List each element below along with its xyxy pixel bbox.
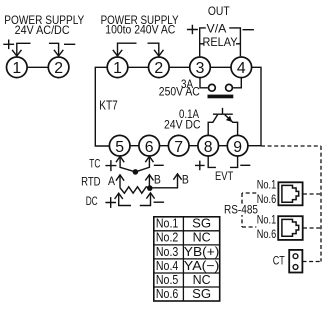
svg-text:YB(+): YB(+) bbox=[184, 244, 220, 259]
wire relay left leg to terminal 3 bbox=[200, 43, 205, 45]
terminal 4 bbox=[231, 57, 252, 78]
transistor Q1 emitter arrowhead bbox=[226, 116, 232, 122]
thermocouple junction dot bbox=[133, 169, 139, 175]
svg-text:B: B bbox=[154, 172, 161, 186]
wire terminal4 to relay contact bbox=[233, 78, 241, 88]
svg-text:250V AC: 250V AC bbox=[159, 84, 200, 98]
wire 7-8 bbox=[189, 145, 198, 147]
dashed wire jack2 bbox=[303, 227, 321, 229]
thermocouple wire + into terminal 5 bbox=[120, 157, 135, 172]
svg-text:KT7: KT7 bbox=[99, 99, 118, 113]
connector CT box bbox=[289, 250, 302, 273]
table column divider bbox=[182, 217, 184, 301]
RTD wire B into terminal 7 bbox=[153, 174, 178, 187]
plus sign TC bbox=[105, 160, 116, 171]
svg-text:NC: NC bbox=[193, 230, 211, 245]
svg-text:2: 2 bbox=[154, 60, 163, 77]
svg-text:100to 240V AC: 100to 240V AC bbox=[105, 23, 175, 37]
svg-text:1: 1 bbox=[12, 60, 21, 77]
svg-text:No.3: No.3 bbox=[156, 244, 178, 259]
terminal 7 bbox=[168, 135, 189, 156]
terminal 1 bbox=[6, 57, 27, 78]
svg-text:A: A bbox=[108, 174, 115, 188]
wire V/A right bbox=[229, 28, 240, 56]
svg-text:24V AC/DC: 24V AC/DC bbox=[15, 23, 70, 37]
wire 1b-2b bbox=[128, 66, 149, 68]
plus sign DC bbox=[105, 197, 116, 208]
svg-text:No.1: No.1 bbox=[257, 212, 277, 226]
svg-text:5: 5 bbox=[115, 139, 124, 156]
CT pin hole 1 bbox=[293, 254, 298, 259]
wire terminal9 right bbox=[248, 145, 261, 147]
svg-text:9: 9 bbox=[233, 139, 242, 156]
wire arrow into terminal 2b bbox=[148, 43, 159, 55]
svg-text:No.4: No.4 bbox=[156, 258, 178, 273]
wire arrow into terminal 1 bbox=[17, 43, 31, 55]
svg-text:RTD: RTD bbox=[81, 174, 101, 188]
svg-text:RS-485: RS-485 bbox=[224, 203, 258, 217]
connector jack1 box bbox=[278, 182, 302, 205]
wire arrow into terminal 2 bbox=[49, 43, 59, 55]
transistor Q1 emitter leg to terminal 9 bbox=[225, 115, 238, 136]
RTD wire A into terminal 5 bbox=[119, 175, 121, 187]
terminal 8 bbox=[198, 135, 219, 156]
wire terminal3 to relay contact bbox=[200, 78, 208, 88]
wire terminal4 to node right bbox=[252, 67, 261, 146]
svg-text:No.2: No.2 bbox=[156, 230, 178, 245]
svg-text:8: 8 bbox=[204, 139, 213, 156]
svg-text:No.6: No.6 bbox=[156, 286, 178, 301]
wire 6-7 bbox=[160, 145, 169, 147]
DC wire - into terminal 6 bbox=[140, 193, 151, 205]
svg-text:No.5: No.5 bbox=[156, 272, 178, 287]
dashed RS-485 bracket bottom bbox=[242, 226, 256, 228]
terminal 2b bbox=[149, 57, 170, 78]
resistor RTD element bbox=[120, 187, 150, 193]
plus sign supply1 bbox=[3, 40, 14, 50]
svg-text:V/A: V/A bbox=[207, 21, 227, 35]
terminal assignment table bbox=[154, 217, 220, 301]
svg-text:24V DC: 24V DC bbox=[164, 117, 201, 131]
terminal 1b bbox=[107, 57, 128, 78]
svg-text:YA(−): YA(−) bbox=[184, 258, 220, 273]
plus sign EVT bbox=[195, 161, 205, 171]
relay armature bar bbox=[208, 95, 234, 99]
svg-text:No.1: No.1 bbox=[156, 216, 178, 231]
terminal 3 bbox=[190, 57, 211, 78]
svg-text:CT: CT bbox=[273, 253, 285, 267]
svg-text:No.6: No.6 bbox=[257, 192, 277, 206]
minus sign DC bbox=[154, 201, 165, 203]
dashed wire CT bbox=[303, 261, 322, 263]
plus sign OUT bbox=[187, 25, 198, 35]
svg-text:6: 6 bbox=[145, 139, 154, 156]
connector jack1 socket bbox=[282, 185, 299, 202]
svg-text:SG: SG bbox=[192, 216, 211, 231]
svg-text:TC: TC bbox=[89, 156, 100, 170]
wire 8-9 bbox=[219, 145, 228, 147]
transistor Q1 base lead bbox=[222, 108, 224, 114]
transistor Q1 base bar bbox=[213, 113, 233, 115]
svg-text:B: B bbox=[182, 172, 189, 186]
minus sign OUT bbox=[243, 29, 254, 31]
minus sign TC bbox=[154, 164, 164, 166]
terminal 6 bbox=[139, 135, 160, 156]
svg-text:RELAY: RELAY bbox=[203, 35, 238, 49]
wire relay right leg to terminal 4 bbox=[236, 43, 240, 45]
unit outline KT7 bbox=[95, 67, 109, 146]
wire V/A left bbox=[200, 28, 206, 56]
svg-text:3: 3 bbox=[196, 60, 205, 77]
svg-text:7: 7 bbox=[174, 139, 183, 156]
dashed right rail bbox=[320, 146, 322, 262]
svg-text:No.6: No.6 bbox=[257, 227, 277, 241]
connector jack2 socket bbox=[282, 219, 299, 236]
CT pin hole 2 bbox=[293, 265, 298, 270]
terminal 5 bbox=[109, 135, 130, 156]
minus sign supply1 bbox=[64, 43, 75, 45]
wire 5-6 bbox=[130, 145, 139, 147]
relay contact circle right bbox=[226, 84, 233, 91]
relay contact circle left bbox=[209, 84, 216, 91]
wire 3-4 bbox=[210, 66, 231, 68]
minus sign EVT bbox=[240, 164, 250, 166]
transistor Q1 collector leg to terminal 8 bbox=[208, 115, 217, 136]
svg-text:2: 2 bbox=[54, 60, 63, 77]
wire 2b-3 bbox=[169, 66, 190, 68]
svg-text:EVT: EVT bbox=[215, 169, 234, 183]
terminal 9 bbox=[227, 135, 248, 156]
RTD wire B into terminal 6 bbox=[148, 175, 150, 186]
DC wire + into terminal 5 bbox=[119, 194, 131, 206]
dashed RS-485 bracket vertical bbox=[241, 193, 243, 227]
EVT wire terminal 9 bbox=[230, 156, 238, 167]
svg-text:4: 4 bbox=[237, 60, 246, 77]
svg-text:1: 1 bbox=[113, 60, 122, 77]
table row lines bbox=[154, 231, 220, 287]
dashed wire node to right rail bbox=[261, 145, 321, 147]
connector jack2 box bbox=[278, 216, 303, 240]
svg-text:OUT: OUT bbox=[208, 4, 230, 18]
svg-text:NC: NC bbox=[193, 272, 211, 287]
svg-text:SG: SG bbox=[192, 286, 211, 301]
dashed RS-485 bracket top bbox=[242, 192, 256, 194]
wire arrow into terminal 1b bbox=[118, 43, 137, 55]
thermocouple wire - into terminal 6 bbox=[135, 157, 149, 172]
RTD junction dot bbox=[147, 185, 153, 191]
svg-text:DC: DC bbox=[86, 194, 98, 208]
svg-text:No.1: No.1 bbox=[257, 177, 277, 191]
dashed wire jack1 bbox=[303, 193, 321, 195]
wire 1-2 bbox=[27, 66, 48, 68]
EVT wire terminal 8 bbox=[208, 156, 216, 167]
label RS-485 bbox=[223, 205, 259, 215]
terminal 2 bbox=[48, 57, 69, 78]
